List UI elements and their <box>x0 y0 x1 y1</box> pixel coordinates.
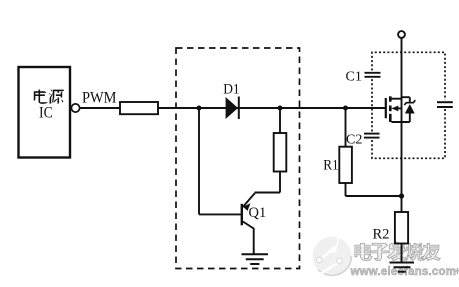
svg-text:IC: IC <box>39 104 53 121</box>
svg-text:+: + <box>454 266 459 278</box>
svg-text:PWM: PWM <box>82 90 117 107</box>
svg-text:R2: R2 <box>373 227 390 243</box>
svg-text:C2: C2 <box>346 133 362 148</box>
svg-text:R1: R1 <box>323 157 339 173</box>
svg-text:Q1: Q1 <box>249 205 267 221</box>
svg-text:D1: D1 <box>223 81 240 97</box>
svg-text:C1: C1 <box>346 70 362 85</box>
